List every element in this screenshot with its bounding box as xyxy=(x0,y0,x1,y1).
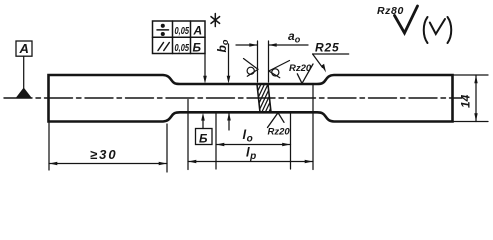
svg-text:A: A xyxy=(19,41,29,56)
dimension 14 (right end) xyxy=(453,74,489,76)
datum A box xyxy=(16,41,32,56)
dimension b_o lower arrow xyxy=(228,113,230,131)
dimension l_p xyxy=(188,161,313,163)
svg-text:Rz80: Rz80 xyxy=(377,5,404,17)
centerline (specimen axis) xyxy=(4,97,462,99)
svg-text:Б: Б xyxy=(193,41,202,55)
tolerance frame symbol row2 (parallelism //) xyxy=(158,43,169,51)
roughness Rz80 big check (top right) xyxy=(395,6,418,33)
svg-text:Б: Б xyxy=(199,132,208,146)
svg-text:≥30: ≥30 xyxy=(90,147,118,162)
roughness Rz20 check on gauge top surface xyxy=(297,64,313,83)
tolerance frame symbol row1 (straightness-type sign) xyxy=(157,25,169,36)
dimension l_o xyxy=(216,144,291,146)
extension line l_p right xyxy=(312,84,314,170)
datum Б box xyxy=(196,129,213,145)
roughness sign (circle in vee) left of weld xyxy=(244,59,259,77)
roughness sign (circle in vee) right of weld xyxy=(269,61,290,78)
asterisk xyxy=(211,14,220,27)
tolerance frame xyxy=(153,21,206,54)
svg-text:14: 14 xyxy=(459,94,473,108)
extension line l_o left xyxy=(215,112,217,169)
svg-text:Rz20: Rz20 xyxy=(289,63,312,74)
dimension b_o upper arrow xyxy=(228,44,230,76)
datum A triangle (filled, base on axis) xyxy=(17,88,32,98)
weld seam (hatched band) xyxy=(246,82,287,116)
specimen outline xyxy=(49,75,453,122)
svg-text:Rz20: Rz20 xyxy=(268,127,291,138)
extension line >=30 left (bar edge extended) xyxy=(48,122,50,171)
dimension >=30 xyxy=(49,163,167,165)
leader from tolerance frame to gauge top surface xyxy=(204,54,206,77)
svg-text:0,05: 0,05 xyxy=(175,42,190,54)
weld width extension lines xyxy=(257,41,259,82)
datum Б leader arrow xyxy=(202,120,204,129)
extension line l_o right xyxy=(290,112,292,169)
dimension a_o lines and arrows xyxy=(236,44,257,46)
extension line >=30 right xyxy=(166,124,168,172)
datum A leader xyxy=(23,56,25,88)
svg-text:A: A xyxy=(193,24,203,38)
roughness Rz20 check on weld lower surface xyxy=(268,113,285,128)
svg-text:0,05: 0,05 xyxy=(175,25,190,37)
R25 leader with arrow to fillet xyxy=(313,53,349,55)
extension line l_p left xyxy=(187,100,189,170)
parentheses with check (rest of surfaces) xyxy=(424,17,452,43)
svg-text:R25: R25 xyxy=(315,41,339,55)
